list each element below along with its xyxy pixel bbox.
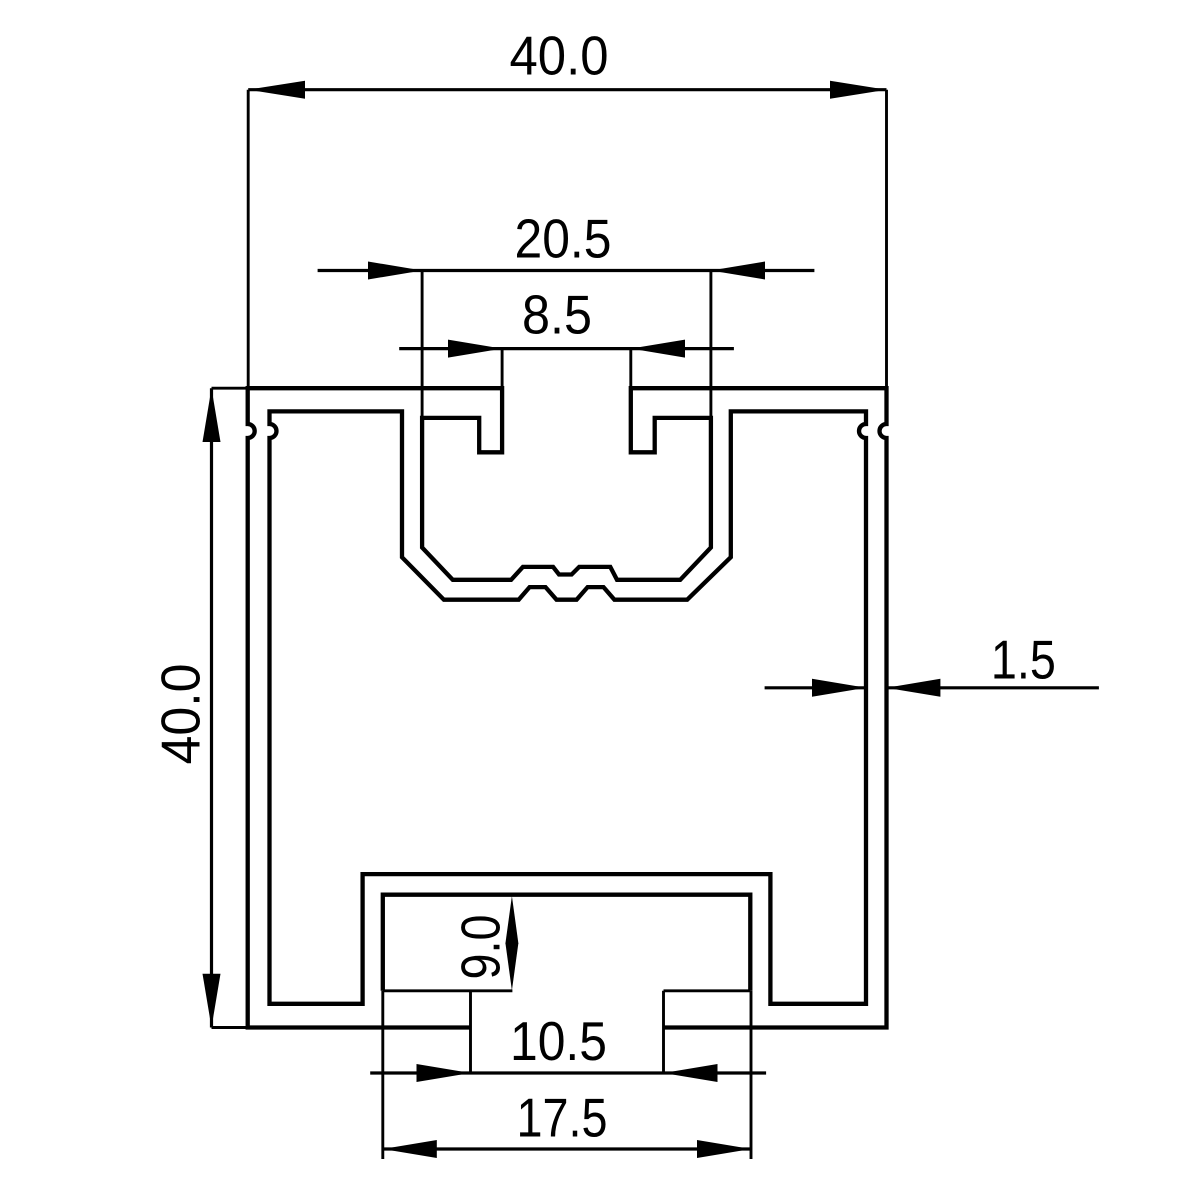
dimension 17.5 channel inner width: [383, 991, 751, 1159]
svg-text:40.0: 40.0: [510, 24, 609, 86]
svg-text:8.5: 8.5: [522, 284, 592, 346]
dimension 20.5 slot inner width: [318, 208, 815, 418]
dimension 8.5 slot opening width: [399, 284, 734, 389]
dimension 40.0 overall width (top): [248, 24, 886, 388]
dimension 10.5 channel opening width: [370, 1010, 766, 1082]
svg-text:1.5: 1.5: [991, 629, 1056, 691]
profile inner cavity contour (enclosed chamber with slot underside and channel box, incl. wall notches): [270, 411, 867, 1003]
svg-text:10.5: 10.5: [510, 1010, 607, 1072]
channel step ledges and opening edges (thin): [383, 991, 751, 1074]
dimension 1.5 wall thickness (right): [765, 629, 1099, 697]
dimension 9.0 channel depth (rotated, double arrow): [450, 896, 519, 991]
svg-text:17.5: 17.5: [517, 1087, 608, 1149]
svg-text:9.0: 9.0: [450, 915, 512, 980]
dimension 40.0 overall height (left, rotated): [150, 388, 248, 1027]
svg-text:20.5: 20.5: [515, 208, 612, 270]
svg-text:40.0: 40.0: [150, 664, 212, 765]
profile outer contour (40x40 rail cross-section with top T-slot and bottom channel, incl. wall notches): [248, 388, 887, 1027]
